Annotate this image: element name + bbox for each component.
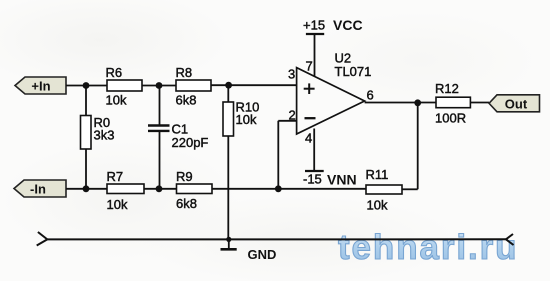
svg-text:R12: R12 — [435, 81, 459, 96]
svg-text:R6: R6 — [106, 65, 123, 80]
svg-text:6k8: 6k8 — [176, 196, 197, 211]
wire -In to node D — [66, 188, 107, 190]
wire R7 to node E — [144, 188, 177, 190]
svg-text:TL071: TL071 — [335, 64, 372, 79]
node F junction — [275, 185, 282, 192]
op-amp U2 — [288, 51, 374, 146]
resistor R11 — [366, 167, 403, 213]
wire op-amp output — [365, 102, 436, 104]
svg-text:R8: R8 — [176, 65, 193, 80]
svg-text:tehnari.ru: tehnari.ru — [338, 228, 518, 267]
wire ground rail — [47, 238, 506, 240]
svg-text:100R: 100R — [435, 111, 466, 126]
node C junction — [225, 82, 232, 89]
capacitor C1 — [148, 86, 208, 189]
svg-text:10k: 10k — [107, 197, 128, 212]
svg-text:VNN: VNN — [327, 172, 357, 188]
resistor R8 — [176, 65, 212, 108]
wire R6 to node B — [142, 85, 176, 87]
node E junction — [156, 185, 163, 192]
svg-text:10k: 10k — [236, 112, 257, 127]
svg-text:220pF: 220pF — [172, 135, 209, 150]
svg-text:6: 6 — [367, 88, 374, 103]
svg-text:10k: 10k — [367, 198, 388, 213]
resistor R9 — [176, 169, 212, 211]
ground symbol — [221, 237, 277, 262]
node D junction — [83, 185, 90, 192]
left off-page arrow — [37, 232, 48, 246]
svg-text:6k8: 6k8 — [176, 93, 197, 108]
svg-text:7: 7 — [306, 59, 313, 74]
node A junction — [83, 82, 90, 89]
wire feedback vertical — [417, 103, 419, 190]
svg-text:10k: 10k — [106, 93, 127, 108]
wire +In to node A — [66, 85, 107, 87]
resistor R7 — [107, 169, 145, 212]
VCC power symbol — [303, 17, 363, 77]
svg-text:+15: +15 — [303, 18, 325, 33]
svg-text:-In: -In — [30, 182, 46, 197]
svg-text:3k3: 3k3 — [94, 128, 115, 143]
wire R8 to op-amp pin 3 — [211, 84, 297, 86]
wire R9 to node F — [212, 188, 366, 190]
wire R12 to Out — [470, 102, 489, 104]
node Out connector — [489, 95, 540, 112]
node B junction — [156, 82, 163, 89]
node +In connector — [15, 77, 66, 94]
svg-text:GND: GND — [248, 247, 277, 262]
svg-text:-15: -15 — [303, 172, 322, 187]
resistor R10 — [223, 85, 259, 239]
svg-text:3: 3 — [288, 67, 295, 82]
svg-text:+In: +In — [31, 79, 50, 94]
resistor R0 — [81, 86, 115, 189]
resistor R12 — [435, 81, 470, 126]
svg-text:R9: R9 — [176, 169, 193, 184]
VNN power symbol — [303, 129, 357, 188]
node -In connector — [14, 180, 66, 197]
svg-text:R7: R7 — [107, 169, 124, 184]
right off-page arrow — [506, 234, 514, 245]
node G junction — [414, 99, 421, 106]
svg-text:VCC: VCC — [333, 17, 363, 33]
svg-text:R11: R11 — [366, 167, 389, 182]
resistor R6 — [106, 65, 143, 108]
wire node F up to pin 2 — [277, 121, 279, 189]
svg-text:2: 2 — [289, 108, 296, 123]
watermark tehnari.ru — [338, 228, 518, 267]
svg-text:Out: Out — [505, 96, 528, 111]
svg-text:4: 4 — [305, 131, 312, 146]
